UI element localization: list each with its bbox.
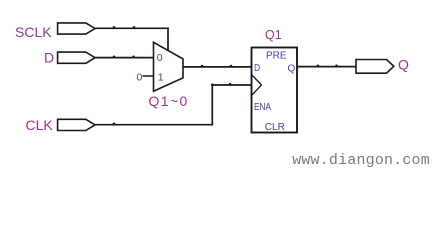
- wire constant 0 to mux input 1: [143, 75, 154, 77]
- wire mux output to D of flip-flop: [183, 66, 252, 68]
- svg-text:0: 0: [137, 72, 143, 84]
- svg-text:CLR: CLR: [265, 122, 285, 133]
- junction dot SCLK wire 1: [113, 26, 116, 29]
- input port SCLK: [58, 23, 95, 34]
- junction dot D wire 2: [132, 56, 135, 59]
- svg-text:PRE: PRE: [266, 51, 287, 62]
- svg-text:CLK: CLK: [26, 117, 54, 133]
- junction dot mux output 2: [230, 65, 233, 68]
- svg-text:D: D: [254, 63, 260, 74]
- wire CLK horizontal: [95, 124, 213, 126]
- svg-text:Q: Q: [398, 56, 409, 72]
- junction dot Q wire 2: [335, 65, 338, 68]
- input port D: [58, 52, 95, 63]
- flip-flop clock edge triangle: [252, 75, 262, 96]
- wire SCLK vertical to mux select: [167, 27, 169, 50]
- svg-text:www.diangon.com: www.diangon.com: [292, 152, 430, 169]
- wire Q output: [297, 66, 356, 68]
- wire CLK to flip-flop clock: [212, 84, 251, 86]
- svg-text:0: 0: [157, 52, 163, 64]
- svg-text:Q: Q: [288, 63, 296, 74]
- input port CLK: [58, 119, 95, 130]
- junction dot SCLK wire 2: [133, 26, 136, 29]
- flip-flop U Q1 body: [252, 48, 298, 133]
- junction dot CLK wire: [113, 123, 116, 126]
- junction dot CLK corner: [211, 83, 214, 86]
- wire D to mux input 0: [95, 57, 154, 59]
- junction dot CLK stub: [229, 83, 232, 86]
- svg-text:D: D: [44, 50, 54, 66]
- mux Q1~0: [154, 42, 184, 91]
- junction dot mux output 1: [201, 65, 204, 68]
- svg-text:Q1~0: Q1~0: [149, 93, 189, 109]
- svg-text:Q1: Q1: [265, 28, 282, 42]
- junction dot D wire 1: [113, 56, 116, 59]
- output port Q: [356, 60, 394, 74]
- svg-text:SCLK: SCLK: [15, 24, 52, 40]
- svg-text:1: 1: [158, 72, 164, 84]
- junction dot Q wire 1: [317, 65, 320, 68]
- svg-text:ENA: ENA: [254, 102, 271, 113]
- wire SCLK horizontal: [95, 27, 169, 29]
- wire CLK vertical: [211, 85, 213, 126]
